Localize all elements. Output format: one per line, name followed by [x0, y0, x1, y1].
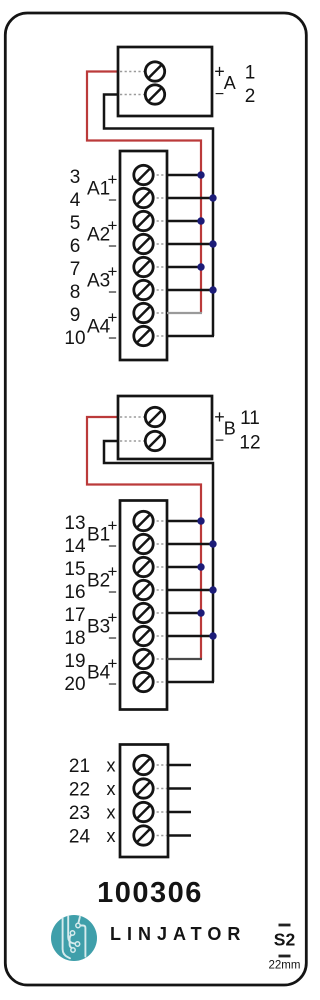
svg-text:−: − [108, 238, 117, 255]
svg-text:3: 3 [70, 167, 81, 188]
wire stub terminal 23 [152, 811, 167, 813]
screw terminal B- [145, 431, 164, 450]
screw terminal 23 [134, 802, 153, 821]
svg-text:21: 21 [69, 756, 90, 777]
screw terminal 7 [134, 257, 153, 276]
svg-text:x: x [107, 826, 116, 846]
junction node pin 17 [197, 609, 204, 616]
screw terminal 18 [134, 626, 153, 645]
svg-text:23: 23 [69, 803, 90, 824]
screw terminal 15 [134, 557, 153, 576]
svg-text:4: 4 [70, 190, 81, 211]
junction node pin 18 [209, 632, 216, 639]
svg-text:+: + [108, 516, 118, 535]
screw terminal 8 [134, 280, 153, 299]
svg-text:16: 16 [64, 582, 85, 603]
svg-text:+: + [108, 170, 118, 189]
svg-text:x: x [107, 803, 116, 823]
screw terminal 10 [134, 326, 153, 345]
svg-text:18: 18 [64, 628, 85, 649]
screw terminal 21 [134, 755, 153, 774]
wire terminal 24 open lead [168, 834, 191, 837]
junction node pin 15 [197, 563, 204, 570]
terminal block B supply [118, 396, 212, 459]
svg-text:22: 22 [69, 780, 90, 801]
svg-text:+: + [108, 308, 118, 327]
svg-text:20: 20 [64, 674, 85, 695]
svg-text:+: + [108, 262, 118, 281]
wire stub terminal 18 [152, 635, 166, 637]
junction node pin 6 [209, 240, 216, 247]
svg-text:B: B [224, 419, 236, 439]
wire stub terminal 13 [152, 520, 166, 522]
logo Linjator icon [51, 915, 97, 961]
svg-text:9: 9 [70, 305, 81, 326]
screw terminal 24 [134, 826, 153, 845]
svg-text:−: − [108, 538, 117, 555]
terminal block unused pins 21-24 [120, 745, 168, 858]
wire stub terminal 7 [152, 266, 166, 268]
wire stub to terminal A+ [120, 71, 144, 73]
svg-text:7: 7 [70, 259, 81, 280]
svg-text:+: + [108, 562, 118, 581]
terminal block A1-A4 channels [120, 151, 167, 360]
svg-text:−: − [108, 284, 117, 301]
screw terminal 6 [134, 234, 153, 253]
wire stub to terminal A- [120, 94, 144, 96]
screw terminal 14 [134, 534, 153, 553]
svg-text:17: 17 [64, 605, 85, 626]
svg-text:2: 2 [245, 86, 256, 107]
size mark line top [279, 924, 291, 927]
wire red +A supply [87, 72, 201, 314]
svg-text:x: x [107, 756, 116, 776]
junction node pin 14 [209, 540, 216, 547]
wire stub terminal 9 [152, 312, 166, 314]
screw terminal B+ [145, 407, 164, 426]
terminal block A supply [118, 47, 212, 116]
svg-text:−: − [108, 676, 117, 693]
wire black -B supply [104, 441, 213, 682]
svg-text:LINJATOR: LINJATOR [110, 924, 246, 944]
screw terminal 5 [134, 211, 153, 230]
screw terminal 13 [134, 511, 153, 530]
size mark line bottom [279, 955, 291, 958]
junction node pin 7 [197, 263, 204, 270]
svg-text:22mm: 22mm [269, 960, 301, 972]
svg-text:1: 1 [245, 63, 256, 84]
wire stub terminal 24 [152, 835, 167, 837]
svg-text:13: 13 [64, 513, 85, 534]
terminal block B1-B4 channels [120, 501, 167, 710]
svg-text:+: + [108, 654, 118, 673]
wire terminal 18 to - bus [167, 635, 213, 638]
wire stub terminal 8 [152, 289, 166, 291]
screw terminal 22 [134, 779, 153, 798]
wire terminal 5 to + bus [167, 220, 201, 223]
wire terminal 16 to - bus [167, 589, 213, 592]
wire stub terminal 10 [152, 335, 166, 337]
screw terminal 3 [134, 165, 153, 184]
wire stub terminal 4 [152, 197, 166, 199]
svg-text:x: x [107, 779, 116, 799]
wire terminal 19 to + bus end [167, 658, 202, 660]
wire terminal 14 to - bus [167, 543, 213, 546]
svg-text:A: A [224, 73, 236, 93]
wire terminal 15 to + bus [167, 566, 201, 569]
svg-text:6: 6 [70, 236, 81, 257]
svg-text:S2: S2 [274, 930, 296, 950]
screw terminal A- [145, 85, 164, 104]
wire red +B supply [87, 417, 201, 659]
svg-text:−: − [108, 330, 117, 347]
wire stub terminal 19 [152, 658, 166, 660]
svg-text:15: 15 [64, 559, 85, 580]
wire terminal 23 open lead [168, 811, 191, 814]
junction node pin 5 [197, 217, 204, 224]
wire stub to terminal B+ [120, 416, 144, 418]
wire stub terminal 20 [152, 681, 166, 683]
svg-text:−: − [215, 433, 224, 450]
svg-text:24: 24 [69, 827, 91, 848]
svg-text:11: 11 [240, 408, 260, 429]
svg-text:5: 5 [70, 213, 81, 234]
screw terminal A+ [145, 62, 164, 81]
wire stub terminal 17 [152, 612, 166, 614]
wire terminal 4 to - bus [167, 197, 213, 200]
wire stub to terminal B- [120, 440, 144, 442]
wire stub terminal 5 [152, 220, 166, 222]
svg-text:−: − [108, 630, 117, 647]
junction node pin 8 [209, 286, 216, 293]
wire stub terminal 6 [152, 243, 166, 245]
svg-text:12: 12 [239, 433, 260, 454]
wire terminal 6 to - bus [167, 243, 213, 246]
screw terminal 20 [134, 672, 153, 691]
svg-text:10: 10 [64, 328, 85, 349]
svg-text:−: − [215, 86, 224, 103]
junction node pin 3 [197, 171, 204, 178]
wire stub terminal 15 [152, 566, 166, 568]
wire stub terminal 21 [152, 764, 167, 766]
wire stub terminal 3 [152, 174, 166, 176]
wire terminal 21 open lead [168, 764, 191, 767]
svg-text:14: 14 [64, 536, 86, 557]
wire stub terminal 14 [152, 543, 166, 545]
svg-text:−: − [108, 192, 117, 209]
wire terminal 10 to - bus end [167, 335, 214, 338]
screw terminal 4 [134, 188, 153, 207]
svg-text:8: 8 [70, 282, 81, 303]
wire stub terminal 16 [152, 589, 166, 591]
svg-text:−: − [108, 584, 117, 601]
screw terminal 17 [134, 603, 153, 622]
wire terminal 22 open lead [168, 787, 191, 790]
wire terminal 13 to + bus [167, 520, 201, 523]
junction node pin 13 [197, 517, 204, 524]
svg-text:100306: 100306 [97, 877, 203, 909]
screw terminal 16 [134, 580, 153, 599]
svg-text:+: + [108, 608, 118, 627]
wire terminal 17 to + bus [167, 612, 201, 615]
junction node pin 4 [209, 194, 216, 201]
screw terminal 19 [134, 649, 153, 668]
wire terminal 7 to + bus [167, 266, 201, 269]
wire terminal 8 to - bus [167, 289, 213, 292]
svg-text:19: 19 [64, 651, 85, 672]
wire terminal 20 to - bus end [167, 681, 214, 684]
svg-text:+: + [108, 216, 118, 235]
wire terminal 3 to + bus [167, 174, 201, 177]
screw terminal 9 [134, 303, 153, 322]
wire terminal 9 to + bus end [167, 312, 202, 314]
wire stub terminal 22 [152, 788, 167, 790]
wire black -A supply [104, 95, 213, 337]
junction node pin 16 [209, 586, 216, 593]
